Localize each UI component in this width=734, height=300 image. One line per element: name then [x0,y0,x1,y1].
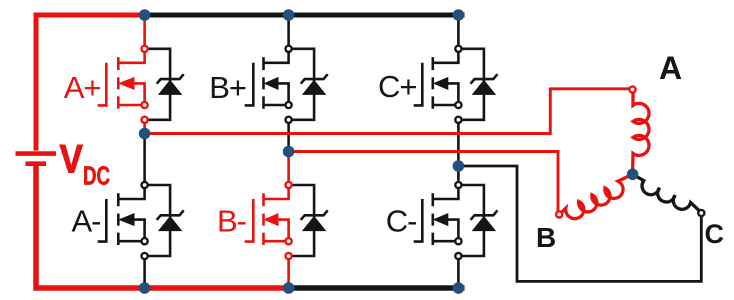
body diode DA+ branch wire [148,49,170,120]
pin: DB+ anode junction [286,117,292,123]
wire: +rail to QB+ drain [287,15,290,46]
winding C (phase C coil) [633,174,701,211]
svg-text:B+: B+ [209,70,246,105]
wire: top rail (+bus, black section) [145,13,465,18]
wire: QC- source to -rail [457,259,460,289]
pin: B+ drain terminal [286,46,292,52]
wire: QC+ source to node C [457,122,460,166]
pin: A- drain terminal [142,182,148,188]
terminal B [556,211,562,217]
transistor C- (N-channel MOSFET) [414,188,459,245]
battery V1 negative plate [26,161,47,166]
body diode DA- [157,210,184,230]
svg-text:C-: C- [386,204,417,239]
terminal C [698,210,704,216]
svg-text:B: B [536,222,556,253]
node C (phase C output) [453,160,465,172]
junction: -rail / phase B [283,282,295,294]
transistor C+ (N-channel MOSFET) [414,52,459,109]
pin: B+ source terminal [286,102,292,108]
pin: C- source terminal [455,238,461,244]
pin: B- source terminal [286,238,292,244]
svg-text:A: A [659,50,682,86]
wire: +rail to QC+ drain [457,15,460,46]
svg-text:C+: C+ [378,69,417,104]
wire: battery - to bottom rail (red) [36,166,289,288]
wire: QB+ source to node B [287,122,290,151]
wire: node A to QA- drain [143,134,146,183]
svg-text:A-: A- [72,204,101,239]
transistor B+ (N-channel MOSFET) [245,52,289,109]
node: motor star point [627,169,639,181]
pin: C+ drain terminal [455,46,461,52]
wire: battery + to top rail (red) [36,15,145,151]
pin: A- source terminal [142,238,148,244]
pin: C- drain terminal [455,182,461,188]
svg-text:A+: A+ [64,70,101,105]
wire: node A to winding A (red) [145,89,630,134]
node A (phase A output) [139,128,151,140]
pin: B- drain terminal [286,182,292,188]
svg-text:B-: B- [217,204,246,239]
body diode DA+ [157,74,184,94]
wire: QB- source to -rail (red) [287,259,290,289]
pin: DB- anode junction [286,253,292,259]
body diode DB- branch wire [292,185,314,256]
svg-text:DC: DC [83,160,110,190]
transistor B- (N-channel MOSFET) [245,188,289,245]
transistor A- (N-channel MOSFET) [98,188,145,245]
wire: +rail to QA+ drain (red) [143,15,146,46]
junction: +rail / phase A [139,9,151,21]
pin: C+ source terminal [455,102,461,108]
body diode DA- branch wire [148,185,170,256]
junction: -rail / phase A [139,282,151,294]
junction: +rail / phase B [283,9,295,21]
junction: +rail / phase C [453,9,465,21]
svg-text:C: C [705,219,725,249]
wire: node B to QB- drain (red) [287,152,290,183]
wire: node C to winding C [458,166,701,281]
terminal A [629,86,635,92]
svg-text:V: V [60,136,83,181]
battery V1 positive plate [16,151,57,156]
wire: bottom rail (-bus, black section) [289,285,465,291]
pin: A+ drain terminal [142,46,148,52]
pin: DA- anode junction [142,253,148,259]
winding A (phase A coil) [633,93,649,170]
body diode DB- [301,210,328,230]
body diode DC- branch wire [462,185,484,256]
body diode DB+ branch wire [292,49,314,120]
pin: A+ source terminal [142,102,148,108]
wire: QA+ source to node A (red) [143,122,146,133]
wire: QA- source to -rail [143,259,146,289]
pin: DC- anode junction [455,253,461,259]
wire: node B to winding B (red) [289,152,558,212]
body diode DC+ [471,74,498,94]
body diode DB+ [301,74,328,94]
transistor A+ (N-channel MOSFET) [98,52,145,109]
node B (phase B output) [283,146,295,158]
pin: DC+ anode junction [455,117,461,123]
junction: -rail / phase C [453,282,465,294]
body diode DC+ branch wire [462,49,484,120]
wire: node C to QC- drain [457,166,460,183]
label V_DC [60,136,111,190]
winding B (phase B coil) [560,174,633,218]
body diode DC- [471,210,498,230]
pin: DA+ anode junction [142,117,148,123]
